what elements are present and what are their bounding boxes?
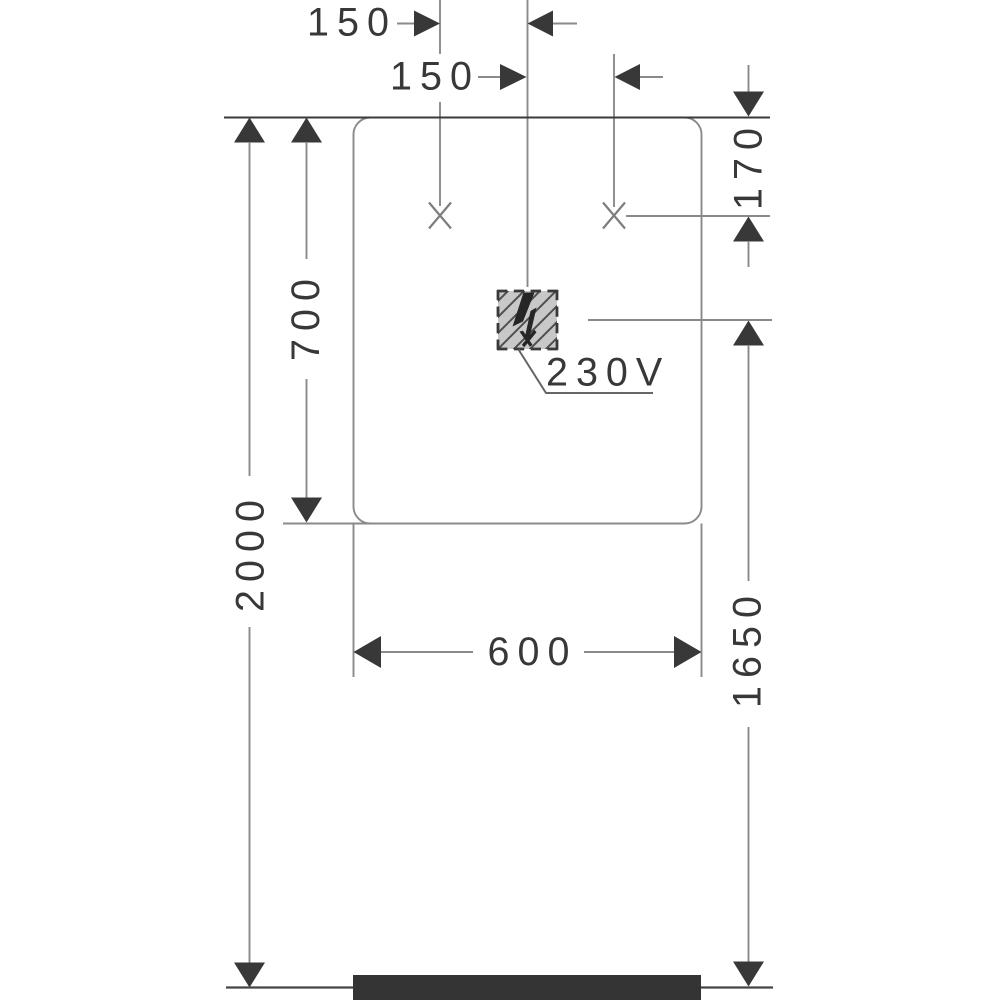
dimension 600 left shaft xyxy=(381,651,473,653)
dimension 600 right shaft xyxy=(584,651,674,653)
left hole extension line (x=440) xyxy=(439,0,441,54)
dimension 150 (row 2) left-pointing arrow xyxy=(615,64,641,90)
dimension 170 up-pointing arrow xyxy=(733,217,764,242)
right hole extension line (x=614) xyxy=(613,54,615,207)
dimension 2000 top arrow xyxy=(234,118,265,143)
svg-text:150: 150 xyxy=(390,55,480,99)
svg-text:230V: 230V xyxy=(546,351,670,395)
svg-text:2000: 2000 xyxy=(229,492,273,612)
hole mark X right xyxy=(603,203,625,229)
dimension 1650 top arrow xyxy=(733,321,764,346)
dimension 700 extension line xyxy=(283,523,400,525)
svg-text:700: 700 xyxy=(284,271,328,361)
dimension 170 lower shaft xyxy=(748,241,750,267)
electrical outlet box dashed border xyxy=(497,290,558,350)
dimension 170 down-pointing arrow xyxy=(733,92,764,117)
dimension 1650 bottom arrow xyxy=(733,962,764,987)
dimension 2000 lower shaft xyxy=(249,627,251,963)
dimension 700 top arrow xyxy=(291,118,322,143)
dimension 2000 upper shaft xyxy=(249,142,251,476)
dimension 700 lower shaft xyxy=(306,379,308,499)
svg-text:1650: 1650 xyxy=(726,588,770,708)
dimension 1650 lower shaft xyxy=(748,727,750,963)
shelf/console dark bar xyxy=(353,975,701,1000)
dimension 150 (row 2) right-pointing arrow xyxy=(500,64,527,90)
leader line for 230V xyxy=(519,350,654,394)
dimension 150 (row 2) right shaft xyxy=(640,76,663,78)
mirror left extension line down xyxy=(353,524,355,678)
electrical outlet box hatching xyxy=(488,269,642,367)
dimension 170 upper shaft xyxy=(748,65,750,93)
outlet reference line to right xyxy=(588,319,772,321)
mirror right extension line down xyxy=(701,524,703,678)
dimension 700 bottom arrow xyxy=(291,498,322,523)
centre vertical line xyxy=(527,0,529,287)
dimension 1650 upper shaft xyxy=(748,345,750,581)
dimension 150 (row 1) left-pointing arrow xyxy=(528,11,554,37)
svg-text:150: 150 xyxy=(307,1,397,45)
floor line xyxy=(226,986,773,988)
wall top reference line xyxy=(224,117,770,119)
lightning bolt xyxy=(513,293,535,327)
dimension 600 right arrow xyxy=(674,636,702,668)
mirror outline (rounded rectangle) xyxy=(354,118,702,524)
dimension 2000 bottom arrow xyxy=(234,963,265,988)
svg-text:600: 600 xyxy=(488,630,578,674)
dimension 700 upper shaft xyxy=(306,142,308,259)
dimension 150 (row 1) right shaft xyxy=(553,23,577,25)
dimension 600 left arrow xyxy=(354,636,382,668)
electrical outlet box fill xyxy=(498,291,557,349)
hole mark X left xyxy=(429,203,451,229)
dimension 150 (row 1) right-pointing arrow xyxy=(414,11,440,37)
dimension 150 (row 1) left shaft xyxy=(397,23,416,25)
svg-text:170: 170 xyxy=(727,120,771,210)
dimension 150 (row 2) left shaft xyxy=(478,76,501,78)
hole reference line to right xyxy=(626,215,770,217)
